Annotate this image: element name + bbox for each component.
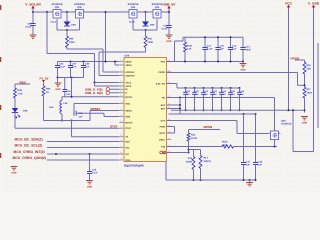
pin TS2 (right, 14)	[161, 144, 171, 149]
capacitor C08 1uF	[81, 61, 90, 78]
svg-text:INT: INT	[125, 153, 129, 156]
junction BAT line	[243, 113, 257, 115]
pin STAT (left, 14)	[119, 126, 131, 131]
pin BTST1 (left, 9)	[119, 94, 133, 99]
pin BAT (right, 20)	[161, 102, 172, 107]
node VCC power port	[285, 1, 293, 110]
svg-text:VRTC: VRTC	[159, 132, 166, 135]
junction USB_5V	[168, 11, 170, 13]
junction INT wire	[55, 153, 57, 155]
svg-text:C14: C14	[246, 45, 251, 48]
capacitor C22 1uF bank2	[201, 87, 209, 111]
transistor Q2 AO3401A	[74, 3, 86, 20]
svg-text:VAC1: VAC1	[125, 81, 132, 84]
junction C14 bottom	[242, 61, 244, 63]
junction bank bottom	[57, 77, 73, 79]
resistor R04 1K	[42, 86, 51, 96]
pin PROG (right, 23)	[159, 69, 172, 74]
resistor R5 100K gate pulldown	[66, 30, 120, 72]
wire SCL net	[47, 147, 119, 149]
wire cap bank bottom bus	[58, 77, 84, 79]
svg-text:15: 15	[120, 134, 122, 137]
capacitor C20 1uF bank2	[183, 87, 191, 111]
svg-text:10: 10	[120, 101, 122, 104]
junction divider bottom	[304, 109, 306, 111]
wire BAT pins join	[167, 98, 181, 115]
svg-text:C18: C18	[258, 160, 263, 163]
svg-text:C05: C05	[66, 90, 71, 93]
svg-text:GND: GND	[55, 88, 60, 91]
pin QON (left, 19)	[119, 157, 131, 162]
svg-text:Q01: Q01	[55, 6, 60, 9]
svg-text:VCC: VCC	[285, 1, 293, 5]
svg-text:3: 3	[269, 131, 270, 134]
inductor L1 1uH	[49, 97, 68, 121]
pin ACDRV2 (left, 4)	[119, 73, 135, 78]
svg-text:1: 1	[120, 59, 121, 62]
wire top bus with S-jog	[175, 37, 244, 61]
node PROG net label	[291, 57, 305, 62]
svg-text:GND: GND	[87, 186, 92, 189]
svg-text:C16: C16	[92, 168, 97, 171]
capacitor C24 1uF bank2	[219, 87, 227, 111]
svg-text:PG: PG	[162, 96, 166, 99]
svg-text:V_SOLAR: V_SOLAR	[25, 2, 41, 6]
svg-text:R12: R12	[191, 133, 196, 136]
svg-text:P1_5V: P1_5V	[39, 76, 48, 80]
svg-text:SCL: SCL	[125, 146, 130, 149]
svg-text:10uF: 10uF	[246, 49, 252, 52]
junction divider mid	[304, 84, 306, 86]
svg-text:BAT: BAT	[161, 107, 166, 110]
wire REGN	[189, 129, 221, 131]
svg-text:Q02: Q02	[77, 6, 82, 9]
svg-text:10.0K: 10.0K	[191, 137, 197, 140]
capacitor C5 1uF mid	[62, 78, 71, 97]
wire SYS line to Q6 gate	[167, 121, 269, 134]
pin INT (left, 18)	[119, 151, 129, 156]
svg-text:6: 6	[120, 83, 121, 86]
junction VBUS line	[105, 61, 117, 63]
svg-text:4: 4	[120, 73, 121, 76]
junction Q6 drain on TS2 line	[274, 146, 276, 148]
svg-text:9: 9	[120, 94, 121, 97]
pin VBUS (left, 1)	[119, 59, 132, 64]
svg-text:R17: R17	[307, 88, 312, 91]
svg-text:1: 1	[279, 131, 280, 134]
svg-text:D08: D08	[23, 109, 28, 112]
svg-text:4.3K: 4.3K	[187, 48, 192, 51]
svg-text:1uF: 1uF	[220, 48, 225, 51]
svg-text:GND: GND	[166, 40, 171, 43]
capacitor C18 1uF	[253, 114, 263, 180]
svg-text:1000: 1000	[71, 23, 77, 26]
node STAT net label	[110, 125, 118, 129]
resistor R17 divider bottom	[303, 87, 312, 113]
svg-text:SW1: SW1	[125, 102, 131, 105]
svg-text:SW2: SW2	[125, 115, 131, 118]
wire VBUS mid rail x=105.5	[105, 12, 107, 62]
svg-text:14: 14	[120, 126, 122, 129]
svg-text:MCU_CHRG_INT(2): MCU_CHRG_INT(2)	[14, 150, 45, 154]
svg-text:1uH: 1uH	[49, 106, 54, 109]
wire to CE pin	[167, 152, 189, 154]
pin ILIM_HIZ (right, 22)	[156, 81, 171, 86]
svg-text:7: 7	[120, 87, 121, 90]
node USB_D_N net label	[85, 91, 119, 95]
pin BAT (right, 19)	[161, 106, 172, 111]
svg-text:STAT: STAT	[110, 125, 118, 129]
pin VRTC (right, 16)	[159, 130, 171, 135]
wire VBUS line into IC	[58, 62, 120, 66]
junction V_SOLAR	[32, 11, 34, 13]
resistor R16 divider top	[303, 62, 311, 87]
capacitor C21 1uF bank2	[192, 87, 200, 111]
svg-text:GND: GND	[302, 122, 307, 125]
junction BAT node	[179, 104, 181, 110]
capacitor C10 1uF	[215, 36, 224, 62]
svg-text:3: 3	[52, 9, 53, 12]
svg-text:MCU_I2C_SCL(2): MCU_I2C_SCL(2)	[15, 144, 43, 148]
junction PG wire	[179, 97, 181, 99]
junction VSYS branch	[292, 109, 294, 111]
svg-text:Q04: Q04	[155, 6, 160, 9]
svg-text:3: 3	[120, 69, 121, 72]
svg-text:1: 1	[162, 9, 163, 12]
junction diode D1 bottom	[66, 29, 68, 31]
capacitor C12 1uF	[228, 36, 237, 62]
pin D+ (left, 7)	[119, 87, 129, 92]
transistor Q3 AO3401A	[127, 3, 139, 20]
svg-text:VBUS: VBUS	[125, 60, 132, 63]
svg-text:BTST2: BTST2	[125, 121, 133, 124]
svg-text:1: 1	[138, 9, 139, 12]
ground bottom rail	[246, 180, 253, 186]
junction diode D2 bottom	[145, 29, 147, 31]
svg-text:C06: C06	[79, 112, 84, 115]
junction Q3-Q4 midpoint	[145, 11, 147, 13]
ground cap bank	[55, 78, 62, 92]
wire ILIM to bank2 top bus	[167, 84, 240, 89]
svg-text:23: 23	[168, 69, 170, 72]
svg-text:13: 13	[120, 120, 122, 123]
svg-text:1uF: 1uF	[85, 66, 90, 69]
svg-text:MCU_CHRG_QON(2): MCU_CHRG_QON(2)	[13, 156, 46, 160]
svg-text:10B: 10B	[307, 67, 312, 70]
wire LED to STAT pin	[15, 113, 119, 129]
svg-text:ZLLS: ZLLS	[51, 20, 57, 23]
svg-text:REGN: REGN	[125, 109, 132, 112]
wire TS2 line with series resistor	[167, 146, 278, 148]
pin SW2 (left, 12)	[119, 114, 131, 119]
svg-text:1uF: 1uF	[232, 48, 237, 51]
junction bottom rail	[193, 179, 257, 181]
op-amp U8 BQ25792 charger IC body	[124, 54, 167, 167]
pin ACDRV1 (left, 3)	[119, 69, 135, 74]
node RESET net label	[90, 107, 119, 111]
pin REGN (left, 11)	[119, 108, 132, 113]
wire inductor out to RESET row	[61, 111, 90, 122]
node USB_D_P net label	[85, 88, 119, 92]
svg-text:ZLLS: ZLLS	[129, 20, 135, 23]
svg-text:PMID: PMID	[160, 125, 166, 128]
svg-text:0.1uF: 0.1uF	[59, 66, 65, 69]
svg-text:100K: 100K	[69, 41, 75, 44]
svg-text:49.9R: 49.9R	[186, 160, 192, 163]
capacitor C04 0.1uF	[55, 62, 66, 78]
svg-text:R13: R13	[188, 157, 193, 160]
resistor R12 10.0K	[187, 130, 197, 153]
pin SDA (left, 16)	[119, 139, 130, 144]
wire SDA net	[47, 141, 119, 143]
svg-text:BQ25792RQMR: BQ25792RQMR	[124, 164, 144, 167]
svg-text:REGN: REGN	[204, 125, 213, 129]
diode D1 ZLLS1000 across Q1/Q2	[51, 12, 80, 30]
svg-text:1: 1	[84, 9, 85, 12]
svg-text:USB_D_N(2): USB_D_N(2)	[85, 91, 103, 95]
ground below C9	[30, 35, 37, 38]
svg-text:BTST1: BTST1	[125, 96, 133, 99]
wire PG to Q6 gate drain	[167, 98, 275, 132]
svg-text:R010: R010	[187, 44, 193, 47]
pin DSEL (right, 15)	[159, 137, 171, 142]
svg-text:PAD: PAD	[161, 60, 166, 63]
node USB_5V power port	[163, 2, 177, 25]
svg-text:ACDRV2: ACDRV2	[125, 74, 135, 77]
svg-text:Q03: Q03	[131, 6, 136, 9]
junction line A	[71, 96, 73, 98]
capacitor C26 1uF bank2	[237, 87, 245, 111]
svg-text:USB_5V: USB_5V	[163, 2, 177, 6]
svg-text:1: 1	[62, 9, 63, 12]
svg-text:VBUS: VBUS	[125, 64, 132, 67]
wire R04 to inductor net	[44, 96, 63, 121]
wire bottom rail y=180	[166, 162, 256, 181]
node MCU_CHRG_INT net label	[14, 150, 45, 154]
pin SCL (left, 17)	[119, 145, 130, 150]
pin PG (right, 21)	[162, 95, 171, 100]
node REGN net label	[204, 125, 213, 129]
svg-text:TS: TS	[125, 136, 128, 139]
svg-text:VAC2: VAC2	[125, 85, 132, 88]
wire R13 top	[189, 150, 201, 156]
svg-text:100K/1: 100K/1	[204, 160, 212, 163]
svg-text:SDA: SDA	[125, 140, 130, 143]
svg-text:C17: C17	[246, 160, 251, 163]
svg-text:8: 8	[120, 90, 121, 93]
svg-text:100K: 100K	[148, 41, 154, 44]
svg-text:1K: 1K	[46, 91, 49, 94]
node MCU_CHRG_QON net label	[13, 156, 46, 160]
node MCU_I2C_SDA net label	[15, 138, 43, 142]
wire C6 to SW2 pin	[104, 113, 119, 116]
pin VAC2 (left, 6)	[119, 83, 132, 88]
svg-text:STAT: STAT	[125, 127, 131, 130]
capacitor C6 1uF flying	[74, 104, 104, 119]
svg-text:1000: 1000	[150, 23, 156, 26]
wire INT net	[47, 153, 119, 155]
wire PMID short	[167, 127, 175, 134]
capacitor C07 1uF	[68, 61, 77, 78]
wire mid drop	[71, 78, 73, 97]
svg-text:3: 3	[152, 9, 153, 12]
svg-text:12: 12	[120, 114, 122, 117]
ground below C10	[166, 35, 173, 43]
svg-text:0.1uF: 0.1uF	[207, 48, 213, 51]
capacitor C23 1uF bank2	[210, 87, 218, 111]
pin PMID (right, 17)	[160, 124, 172, 129]
resistor R015 100R horizontal	[222, 141, 234, 149]
capacitor C9 0.1uF	[25, 23, 35, 35]
ground bottom-left	[11, 167, 18, 175]
resistor R6 100K gate pulldown	[99, 30, 153, 76]
ground divider	[301, 117, 308, 125]
wire VAC1 sense from input	[47, 12, 119, 83]
svg-text:R14: R14	[204, 156, 209, 159]
pin VBUS (left, 2)	[119, 62, 132, 67]
svg-text:BAT: BAT	[161, 104, 166, 107]
capacitor C16 47uF regn	[87, 153, 98, 180]
diode D2 ZLLS1000 across Q3/Q4	[129, 12, 157, 30]
capacitor C10 0.1uF	[161, 25, 171, 35]
svg-text:1uF: 1uF	[79, 115, 84, 118]
node P1_5V power flag	[39, 76, 48, 86]
pin TS (left, 15)	[119, 134, 128, 139]
sheet zone marks	[0, 5, 1, 158]
wire VAC2 jog	[94, 82, 120, 87]
pin VAC1 (left, 5)	[119, 80, 132, 85]
ground cap row1	[240, 62, 247, 72]
svg-text:1uF: 1uF	[258, 164, 263, 167]
svg-text:16: 16	[120, 139, 122, 142]
junction mid rail top	[105, 11, 107, 13]
svg-text:U08: U08	[125, 54, 130, 57]
transistor Q1 AO3401A	[51, 3, 63, 20]
svg-text:GND: GND	[11, 172, 16, 175]
wire PROG to divider	[167, 73, 305, 86]
wire main input rail y=12	[33, 11, 168, 13]
wire bank2 bottom bus	[171, 109, 305, 111]
resistor R8 1.0K	[14, 84, 23, 98]
svg-text:1uF: 1uF	[72, 66, 77, 69]
wire SW1 line B	[74, 103, 119, 105]
svg-text:17: 17	[120, 145, 122, 148]
node RED net label	[15, 81, 30, 85]
wire BTST1 line A	[62, 96, 119, 98]
svg-text:3: 3	[74, 9, 75, 12]
svg-text:11: 11	[120, 108, 122, 111]
LED D3 red	[12, 98, 28, 118]
junction input rail x=47	[46, 11, 48, 13]
svg-text:1.0K: 1.0K	[18, 92, 23, 95]
pin SYS (right, 18)	[161, 118, 172, 123]
pin BTST2 (left, 13)	[119, 120, 133, 125]
svg-text:1uF: 1uF	[66, 93, 71, 96]
pin D- (left, 8)	[119, 90, 128, 95]
svg-text:V_USB: V_USB	[308, 1, 320, 5]
svg-text:100R: 100R	[222, 144, 228, 147]
capacitor C17 1uF	[241, 114, 251, 180]
svg-text:MCU_I2C_SDA(2): MCU_I2C_SDA(2)	[15, 138, 43, 142]
resistor R010 4.3K	[184, 37, 193, 62]
ground below C16	[86, 181, 93, 189]
wire VSYS bottom jog	[293, 110, 314, 151]
pin PAD (right, 24)	[161, 59, 172, 64]
svg-text:2: 2	[120, 62, 121, 65]
no-connect marker at CE pin	[160, 151, 166, 154]
capacitor C13 0.1uF	[202, 36, 213, 62]
junction VCC on bus	[288, 109, 290, 111]
wire PAD to VBUS row	[167, 61, 244, 63]
capacitor C14 10uF end	[240, 37, 251, 61]
svg-text:AO3401A: AO3401A	[281, 123, 292, 126]
svg-text:100K: 100K	[307, 91, 313, 94]
svg-text:D-: D-	[125, 92, 128, 95]
svg-text:1uF: 1uF	[246, 164, 251, 167]
svg-text:QON: QON	[125, 159, 131, 162]
svg-text:PROG: PROG	[159, 71, 166, 74]
svg-text:GND: GND	[240, 69, 245, 72]
svg-text:5: 5	[120, 80, 121, 83]
wire Q6 source down	[274, 140, 276, 147]
resistor R14 100K NTC	[199, 156, 212, 181]
transistor Q6 AO3401A	[269, 119, 292, 141]
svg-text:19: 19	[120, 157, 122, 160]
svg-text:0.1uF: 0.1uF	[161, 28, 168, 31]
svg-text:47uF: 47uF	[92, 172, 98, 175]
pin CE (right, 13)	[162, 150, 171, 155]
svg-text:R16: R16	[307, 64, 312, 67]
wire BAT sense line y=114	[169, 113, 256, 115]
capacitor C25 1uF bank2	[228, 87, 236, 111]
svg-text:R015: R015	[222, 141, 228, 144]
svg-text:ACDRV1: ACDRV1	[125, 71, 135, 74]
svg-text:0.1uF: 0.1uF	[25, 26, 32, 29]
svg-text:SYS: SYS	[161, 119, 166, 122]
transistor Q4 AO3401A	[151, 3, 163, 20]
pin SW1 (left, 10)	[119, 101, 131, 106]
svg-text:18: 18	[120, 151, 122, 154]
node MCU_I2C_SCL net label	[15, 144, 43, 148]
node VSYS power port	[308, 1, 320, 151]
node V_SOLAR power port	[25, 2, 41, 23]
svg-text:15: 15	[168, 137, 170, 140]
junction Q1-Q2 midpoint	[66, 11, 68, 13]
wire right-edge vertical net	[317, 43, 319, 128]
junction R12 bottom	[188, 149, 190, 154]
wire QON net	[47, 159, 119, 161]
resistor R13 49.9R	[186, 150, 195, 181]
wire down to TS pin	[71, 120, 120, 137]
svg-text:3: 3	[128, 9, 129, 12]
svg-text:DSEL: DSEL	[159, 138, 166, 141]
svg-text:ILIM_HIZ: ILIM_HIZ	[156, 82, 166, 85]
